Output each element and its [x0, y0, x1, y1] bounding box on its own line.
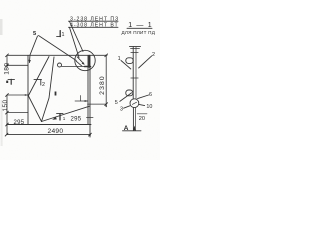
plate left edge	[27, 55, 29, 124]
note line 2 underline	[69, 26, 119, 28]
svg-text:6: 6	[149, 92, 152, 98]
tick at 112.6	[6, 111, 9, 114]
plate top edge with extension to dim lines	[7, 54, 107, 56]
arrowhead in detail circle	[82, 62, 85, 65]
svg-text:295: 295	[14, 120, 25, 126]
paper noise	[0, 0, 160, 160]
upper anchor tab	[126, 58, 133, 64]
tick top (180)	[6, 54, 9, 57]
left dimension line vertical (upper segment)	[6, 55, 8, 67]
leader from note line 2 to detail circle	[70, 28, 80, 58]
hatch lines in detail circle	[77, 57, 84, 64]
svg-text:5: 5	[115, 100, 118, 106]
svg-text:2: 2	[42, 82, 45, 88]
left tick of 2490	[5, 133, 8, 136]
lower anchor tab	[126, 90, 133, 96]
section top cap	[130, 46, 141, 48]
svg-text:2: 2	[152, 52, 155, 58]
svg-text:150: 150	[2, 99, 9, 111]
interior fold line (bottom vertex to right edge)	[42, 106, 90, 121]
view A arrowhead (pointing up)	[133, 126, 136, 131]
arrowhead of label-5 leader	[29, 60, 31, 63]
note line 1 underline	[69, 20, 119, 22]
extension line y=95 with arrow to plate	[7, 94, 28, 96]
svg-text:1: 1	[62, 32, 65, 38]
svg-text:1: 1	[63, 116, 66, 121]
interior fold line (left edge to bottom vertex)	[28, 96, 41, 122]
extension line y=104.3	[88, 103, 107, 105]
tick top right	[105, 54, 108, 57]
svg-text:180: 180	[4, 62, 11, 74]
plate bottom edge with left extension	[7, 124, 91, 126]
interior fold line steep (top edge to bottom vertex)	[42, 57, 55, 122]
svg-text:ДЛЯ ПЛИТ ПД: ДЛЯ ПЛИТ ПД	[122, 30, 156, 35]
small tick on right extension	[87, 117, 94, 119]
tick bottom right	[105, 103, 108, 106]
section title underline	[127, 27, 152, 29]
detail circle	[75, 50, 95, 70]
extension line y=65	[7, 64, 28, 66]
strand tail below node (double)	[132, 108, 134, 131]
leader from label 5 down to plate corner with arrow	[29, 36, 37, 63]
leader from label 5 to detail circle	[39, 36, 77, 61]
svg-text:А: А	[124, 125, 129, 132]
tick at 95	[6, 94, 9, 97]
section web (double vertical)	[132, 47, 134, 99]
arrowhead bottom of right extension	[89, 134, 91, 138]
dot at dim end	[105, 105, 107, 107]
strand node circle	[130, 99, 139, 108]
svg-text:2380: 2380	[99, 75, 106, 95]
faint scan streak left upper	[0, 19, 3, 35]
svg-text:10: 10	[146, 104, 152, 110]
extension line y=112.6	[7, 112, 28, 114]
small weld dot	[55, 92, 57, 96]
svg-text:295: 295	[71, 117, 82, 123]
section mark 1 (bottom)	[57, 113, 63, 115]
bottom dimension line 2490	[7, 134, 90, 136]
notch arrow at right edge	[75, 100, 88, 102]
svg-text:20: 20	[139, 116, 145, 122]
interior fold line (top to left edge, through section mark 2)	[28, 57, 49, 97]
section mark 1 (top)	[59, 31, 61, 37]
leader from note line 1 to detail circle	[70, 22, 84, 52]
dim 20 bar	[137, 113, 147, 115]
faint scan streak left lower	[1, 100, 3, 146]
tick at 65	[6, 64, 9, 67]
web tick upper	[131, 52, 138, 54]
svg-text:1: 1	[118, 56, 121, 62]
left dimension line vertical (lower segment)	[6, 95, 8, 135]
section mark 2 (on fold line)	[34, 79, 42, 81]
right dimension line vertical (2380)	[105, 55, 107, 107]
anchor hook (small loop with line to detail)	[58, 63, 62, 67]
right tick of 2490	[89, 133, 92, 136]
section mark 2 left flag	[8, 78, 15, 80]
arrowhead on fold line near mark 1	[52, 117, 57, 120]
svg-text:2490: 2490	[48, 128, 64, 135]
plate right edge (double line)	[87, 55, 89, 124]
svg-text:3: 3	[120, 107, 123, 113]
view A base line	[123, 130, 142, 132]
tick at 124.5	[6, 123, 9, 126]
corner bracket inside detail circle	[88, 56, 90, 68]
strands inside node	[132, 102, 136, 104]
corner dot top right	[106, 55, 107, 56]
web tick middle	[131, 77, 138, 79]
